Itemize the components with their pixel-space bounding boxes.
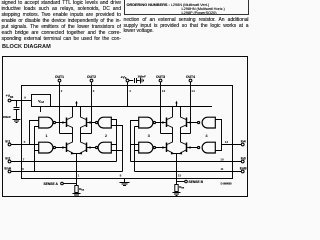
svg-text:6: 6: [22, 167, 24, 171]
svg-text:2: 2: [105, 133, 108, 138]
svg-text:OUT2: OUT2: [87, 75, 96, 79]
svg-text:+VSS: +VSS: [6, 94, 14, 99]
svg-text:SENSE B: SENSE B: [189, 180, 204, 184]
svg-text:13: 13: [162, 89, 166, 93]
svg-text:RSA: RSA: [79, 187, 84, 192]
svg-text:14: 14: [191, 89, 195, 93]
svg-text:4: 4: [129, 89, 131, 93]
svg-text:10: 10: [220, 157, 224, 161]
svg-text:In2: In2: [5, 157, 10, 161]
svg-text:OUT3: OUT3: [156, 75, 165, 79]
svg-text:1: 1: [78, 174, 80, 178]
svg-text:OUT4: OUT4: [186, 75, 195, 79]
svg-text:12: 12: [225, 140, 229, 144]
svg-text:4: 4: [205, 133, 208, 138]
svg-text:In1: In1: [5, 140, 10, 144]
svg-text:2: 2: [61, 89, 63, 93]
svg-text:7: 7: [23, 157, 25, 161]
svg-text:3: 3: [148, 133, 151, 138]
svg-text:EnA: EnA: [4, 167, 11, 171]
svg-text:In3: In3: [241, 157, 246, 161]
svg-text:+VS: +VS: [121, 75, 127, 80]
svg-text:11: 11: [220, 167, 224, 171]
svg-text:8: 8: [120, 174, 122, 178]
svg-text:9: 9: [24, 96, 26, 100]
svg-text:5: 5: [24, 140, 26, 144]
svg-text:15: 15: [178, 174, 182, 178]
svg-text:SENSE A: SENSE A: [44, 182, 59, 186]
svg-text:100nF: 100nF: [138, 75, 147, 79]
svg-text:100nF: 100nF: [3, 115, 12, 119]
svg-text:1: 1: [45, 133, 48, 138]
svg-text:RSB: RSB: [179, 185, 184, 190]
svg-text:In4: In4: [241, 140, 246, 144]
svg-text:Vref: Vref: [38, 100, 44, 105]
svg-text:OUT1: OUT1: [55, 75, 64, 79]
svg-text:EnB: EnB: [240, 167, 247, 171]
svg-text:3: 3: [93, 89, 95, 93]
svg-text:D 95IN35: D 95IN35: [221, 181, 233, 185]
